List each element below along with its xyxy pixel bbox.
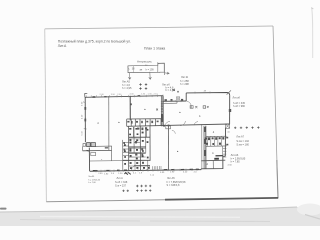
right strip left vertical x=201.8 — [201, 124, 203, 169]
dark blobs bathroom row right strip — [205, 137, 225, 145]
stack horizontal y=165.4 — [134, 164, 150, 166]
wall: right thick of left building (double) — [160, 96, 162, 127]
ticks on connector wall — [166, 100, 181, 102]
central stack vertical x=140.3 — [139, 126, 141, 170]
small rect detail below step wall — [91, 152, 96, 155]
dark scribble mark below wall — [124, 172, 130, 174]
svg-text:Лит.А7: Лит.А7 — [236, 135, 244, 138]
dark mark bottom-left edge — [0, 208, 7, 210]
svg-text:▲: ▲ — [199, 115, 201, 118]
crosses right of right building wall — [234, 126, 260, 129]
tiny dimension numbers above top wall — [100, 94, 159, 97]
small box at hall top-right — [166, 126, 171, 129]
svg-text:h = 7,85: h = 7,85 — [231, 160, 241, 163]
staircase rungs between double wall x=161-163 — [161, 102, 164, 112]
stair rungs narrow column — [223, 148, 227, 157]
ticks on right building top wall — [195, 92, 210, 94]
svg-text:Лит.Б1: Лит.Б1 — [88, 176, 95, 178]
wall: junction short vertical x=177 — [176, 101, 178, 103]
stack horizontal y=142.5 — [134, 142, 140, 144]
faint right-of-page vertical line — [312, 8, 313, 58]
vertical dim text along left wall — [82, 101, 84, 136]
svg-text:▲: ▲ — [144, 108, 146, 111]
svg-text:Лит.А: Лит.А — [58, 44, 67, 48]
mezzanine left tick — [127, 67, 129, 71]
left column partitions — [123, 142, 129, 155]
svg-text:h = 7,06: h = 7,06 — [88, 182, 96, 184]
x-mark in room 3 — [156, 109, 158, 111]
svg-text:h.об = 980: h.об = 980 — [233, 105, 246, 108]
window marks on left wall — [84, 107, 86, 110]
page bottom shadow line (darker to the right) — [46, 200, 165, 202]
svg-text:Лит.А: Лит.А — [117, 177, 124, 180]
porch left vertical — [82, 146, 84, 150]
page sheet — [45, 26, 278, 202]
cross marks group (2x2) near Лит.А5 — [139, 83, 147, 89]
hall right wall x=168.5 — [168, 126, 170, 170]
bottom grey band — [0, 207, 320, 226]
door arc top-right room — [186, 101, 191, 106]
corner chamfer tick — [227, 90, 231, 94]
door jambs on wall y=126 — [163, 125, 165, 127]
narrow room right x=222.7 — [222, 146, 224, 160]
mezzanine right arrow — [165, 72, 170, 74]
dark blob on right outer wall — [229, 109, 231, 112]
mark on wall x=131 — [130, 103, 132, 105]
wall: right outer lower x=225.5 — [224, 128, 226, 156]
right strip small partitions (bathroom row) — [207, 136, 221, 146]
mezzanine outline — [128, 63, 164, 72]
dimension ticks on top wall — [87, 95, 163, 98]
svg-text:*: * — [101, 159, 102, 162]
block Лит.Б1 (far left) — [88, 176, 101, 184]
mezzanine divider — [157, 65, 159, 72]
crosses row 1 bottom (four) — [136, 185, 151, 188]
annex bottom-right outline — [201, 156, 225, 169]
mezzanine down arrow — [149, 72, 152, 80]
right building: vertical double x=204-206 — [203, 126, 205, 169]
dark marks in annex top — [214, 158, 219, 160]
block Лит.об (top right of building) — [233, 97, 246, 108]
bottom band verticals — [135, 161, 148, 171]
svg-text:h = 298: h = 298 — [180, 82, 189, 86]
svg-text:План 1 этажа: План 1 этажа — [144, 46, 165, 50]
X mark small at top wall junction — [176, 97, 179, 100]
svg-text:▲: ▲ — [212, 131, 214, 134]
wall: connector horizontal y=101 — [163, 100, 186, 102]
stack horizontal y=147.3 — [129, 146, 146, 148]
stack horizontal y=152.6 — [129, 152, 146, 154]
svg-text:▲: ▲ — [97, 121, 99, 124]
crosses row 2 bottom (two + four) — [122, 189, 151, 192]
stack horizontal y=157 — [129, 156, 146, 158]
svg-text:Лит.об: Лит.об — [233, 97, 241, 100]
central stack left vertical x=122.7 — [122, 140, 124, 171]
junction scribble marks — [172, 89, 175, 91]
wall: bottom long — [90, 170, 201, 172]
faint streaks in band — [20, 220, 270, 222]
page right edge — [273, 26, 278, 198]
corridor band partitions — [127, 119, 161, 127]
hall left wall x=150 — [149, 126, 151, 161]
svg-text:▲: ▲ — [179, 111, 181, 114]
svg-text:▲: ▲ — [206, 162, 208, 165]
central stack vertical x=134 — [133, 127, 135, 153]
tick on left wall — [84, 128, 87, 130]
svg-text:Лит.Ж: Лит.Ж — [181, 75, 189, 79]
right strip horizontal y=146 — [206, 145, 227, 147]
partition y=146.2 left — [96, 145, 112, 147]
wall: top of right building — [186, 93, 230, 96]
white blotch bottom right — [297, 204, 320, 216]
wall: left outer lower — [88, 148, 90, 172]
junction dark marks — [165, 99, 184, 101]
dark mark on top wall left — [93, 96, 96, 98]
corridor band top y=120.3 — [127, 118, 163, 120]
door arcs above bottom wall — [132, 166, 150, 170]
dark blobs corridor band — [127, 121, 158, 124]
bottom-left step partition y=150.6 — [83, 149, 112, 151]
right strip horizontal y=136.4 — [206, 135, 227, 137]
svg-text:S.ж = 237: S.ж = 237 — [115, 185, 127, 188]
stair symbol above wall — [153, 166, 162, 170]
svg-text:S = 345/3,8: S = 345/3,8 — [167, 184, 180, 187]
dimension ticks on bottom wall — [96, 169, 197, 173]
vertical x=111.5 (y 146-161) — [111, 146, 113, 161]
svg-text:Антресоль: Антресоль — [137, 60, 152, 64]
wall: connector vertical x=186 — [185, 93, 187, 101]
wall: junction second horizontal y=103.3 — [163, 102, 177, 104]
svg-text:Поэтажный план д.375, корп.2 п: Поэтажный план д.375, корп.2 по Большой … — [58, 40, 131, 44]
tick outside left wall — [83, 101, 85, 103]
small marks on right wall — [226, 137, 228, 139]
svg-text:h = 199: h = 199 — [146, 68, 155, 71]
furniture marks in top-right room — [190, 106, 209, 109]
corner box with X at right wall jog — [225, 124, 229, 128]
svg-text:S.об = 348: S.об = 348 — [115, 181, 128, 184]
page left edge — [45, 29, 47, 202]
wall: internal vertical x=108.8 — [108, 96, 110, 150]
svg-text:▲: ▲ — [118, 121, 120, 124]
central stack vertical x=128.6 — [128, 126, 130, 170]
stack horizontal y=137.7 — [129, 137, 150, 139]
page top edge — [45, 26, 273, 29]
svg-text:h = 4,95: h = 4,95 — [122, 86, 132, 90]
wall: top long (left building) — [85, 96, 163, 98]
right strip horizontal y=160.4 — [201, 159, 225, 162]
central stack vertical x=145.7 — [145, 127, 147, 153]
svg-text:▲: ▲ — [177, 150, 179, 153]
window marks on left lower wall / step — [83, 143, 108, 151]
annex internal vertical x=213.2 — [212, 161, 214, 169]
block Лит.А7 (right) — [236, 135, 249, 146]
annex left vertical join — [200, 168, 202, 171]
wall: left outer — [84, 97, 86, 142]
stack double-line details — [129, 139, 146, 149]
dark blobs lower corridor rooms — [123, 128, 147, 165]
corridor band bottom / main horizontal y=126 — [127, 124, 230, 126]
window marks on bottom wall — [93, 169, 199, 170]
block Лит.А6 (right of annex) — [231, 154, 246, 163]
svg-text:S.пм = 102: S.пм = 102 — [236, 140, 249, 143]
long partition y=160.8 — [90, 159, 150, 162]
door arcs on main horizontal wall — [165, 121, 198, 134]
block Лит.А (center-left) — [115, 177, 128, 187]
svg-text:Лит.А5: Лит.А5 — [122, 80, 131, 84]
svg-text:S.пм = 180: S.пм = 180 — [236, 143, 249, 146]
block Лит.А5 (center) — [167, 177, 186, 187]
svg-text:▲: ▲ — [212, 151, 214, 154]
wall: right outer of right building — [229, 95, 231, 123]
wall: internal vertical thick x=130.6 upper — [129, 96, 131, 121]
svg-text:Лит.А5: Лит.А5 — [167, 177, 175, 180]
stack extra density details — [123, 127, 150, 166]
